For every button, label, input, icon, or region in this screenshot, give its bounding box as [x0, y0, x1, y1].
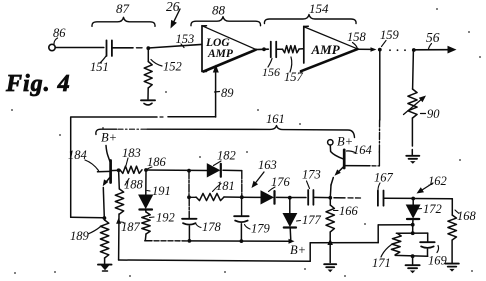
node 156 left — [262, 47, 266, 51]
wire node186 to D191 — [145, 170, 147, 195]
capacitor C156 — [270, 42, 272, 58]
wire lower rail up — [309, 243, 311, 261]
resistor R188 — [118, 170, 121, 189]
arrow 163 — [256, 172, 264, 182]
svg-text:162: 162 — [428, 174, 447, 188]
wire C151 to node — [112, 47, 133, 49]
svg-text:161: 161 — [266, 112, 285, 126]
wire R157 to AMP — [299, 48, 303, 50]
resistor R189 — [103, 218, 105, 220]
svg-text:163: 163 — [258, 158, 277, 172]
wire node to R90 — [412, 50, 415, 89]
node 186 — [144, 168, 148, 172]
op-amp U88 LOG AMP triangle — [201, 26, 203, 72]
svg-text:158: 158 — [347, 30, 367, 44]
svg-text:153: 153 — [176, 32, 195, 46]
B+ rail end arrow — [289, 239, 295, 244]
diode D182 — [207, 164, 219, 177]
svg-text:B+: B+ — [290, 243, 306, 257]
capacitor C167 — [377, 191, 379, 206]
feedback wire from node 159 — [379, 50, 381, 120]
node RC top — [411, 231, 415, 235]
wire rail dashes to C167 — [334, 197, 345, 199]
wire rail to D176 — [242, 196, 261, 198]
capacitor C169 bottom stem — [427, 249, 429, 256]
wire B+ feed vertical — [377, 225, 379, 243]
svg-text:167: 167 — [374, 171, 394, 185]
ground below R168 — [445, 263, 459, 265]
node RC bottom — [411, 254, 415, 258]
wire LOG AMP out — [256, 48, 269, 50]
svg-text:B+: B+ — [101, 131, 117, 145]
wire lower rail horizontal — [119, 259, 238, 262]
arrow 162 — [422, 183, 433, 190]
wire C179 to B+ rail — [240, 224, 242, 241]
ground below R189 arrow style — [98, 264, 112, 266]
resistor R192 — [145, 211, 147, 213]
wire x189 to C178 — [188, 198, 190, 218]
node 172 bottom — [411, 223, 415, 227]
svg-text:90: 90 — [427, 107, 440, 121]
node C179 bottom — [240, 239, 244, 243]
node at R152 — [146, 46, 150, 50]
svg-text:177: 177 — [302, 213, 322, 227]
node R188 top — [117, 168, 121, 172]
node D172 top — [411, 197, 415, 201]
wire D176 to node177 — [277, 196, 291, 198]
node emitter junction — [103, 216, 107, 220]
wire B+ rail — [145, 240, 152, 242]
wire and arrow 56 output — [414, 49, 448, 51]
capacitor C169 top stem — [427, 233, 429, 242]
ground below RC 171/169 — [406, 264, 420, 266]
wire 89 left vertical — [70, 117, 72, 217]
wire node186 to D182 — [146, 169, 207, 172]
wire B+ circle to Q164 — [330, 145, 343, 159]
terminal B+ right circle — [328, 140, 333, 145]
svg-text:152: 152 — [163, 60, 182, 74]
resistor R171 — [391, 233, 401, 255]
svg-text:156: 156 — [262, 65, 280, 79]
capacitor C178 — [182, 218, 197, 220]
wire node to LOG AMP — [148, 44, 201, 48]
node C178 bottom — [188, 239, 192, 243]
svg-text:188: 188 — [124, 178, 144, 192]
node Q164 emitter R166 — [328, 196, 332, 200]
node x189 top — [187, 169, 191, 173]
svg-text:171: 171 — [372, 256, 391, 270]
wire Q184 to R183 — [111, 169, 120, 171]
node 159 — [378, 48, 382, 52]
wire C173 to node166 — [314, 196, 331, 198]
svg-text:186: 186 — [147, 155, 167, 169]
brace 87 — [92, 17, 155, 26]
diode D176 — [261, 191, 273, 204]
scan speckles — [436, 8, 438, 10]
wire R188 to lower rail — [118, 214, 120, 260]
wire input to C151 — [55, 47, 103, 49]
dotted wire 159 to 56 branch — [389, 49, 391, 51]
wire 89 horizontal — [71, 116, 157, 118]
ground below R166 — [324, 263, 336, 265]
svg-text:183: 183 — [122, 146, 141, 160]
wire D172 to node — [412, 219, 414, 224]
svg-text:189: 189 — [70, 229, 90, 243]
wire x242 vertical — [241, 171, 243, 197]
wire node to R168 corner — [413, 198, 452, 200]
svg-text:87: 87 — [116, 1, 130, 16]
svg-text:26: 26 — [166, 0, 180, 14]
feedback arrow into LOG AMP 89 — [215, 72, 217, 117]
svg-text:154: 154 — [309, 1, 329, 16]
resistor R168 — [451, 199, 453, 215]
svg-text:164: 164 — [353, 143, 372, 157]
junction arrow on R166 ground line — [327, 239, 333, 246]
svg-text:179: 179 — [251, 222, 271, 236]
capacitor C179 — [234, 215, 249, 217]
wire node left to B+ feed — [378, 224, 413, 226]
wire D182 to corner — [223, 169, 242, 171]
wire D177 to B+ arrow — [289, 228, 292, 241]
svg-text:176: 176 — [271, 175, 291, 189]
diode D172 — [412, 199, 414, 205]
wire C167 to node172 — [384, 197, 414, 199]
wire R181 right — [224, 196, 242, 198]
wire C156 to R157 — [276, 48, 282, 50]
input terminal 86 — [49, 44, 55, 50]
diode D191 — [139, 195, 153, 208]
svg-text:AMP: AMP — [207, 48, 234, 60]
svg-text:159: 159 — [380, 28, 400, 42]
transistor Q164 bar — [343, 150, 346, 168]
wire B+ to Q184 collector — [106, 146, 110, 163]
svg-text:88: 88 — [212, 3, 226, 18]
brace 161 — [96, 129, 117, 134]
resistor R183 — [120, 166, 142, 173]
resistor R152 — [147, 49, 149, 62]
diode D177 — [289, 198, 291, 213]
svg-text:172: 172 — [423, 202, 442, 216]
Q164 emitter — [337, 166, 344, 173]
capacitor C151 — [106, 40, 108, 56]
svg-text:AMP: AMP — [311, 42, 341, 57]
svg-text:191: 191 — [152, 184, 171, 198]
wire x189 vertical — [188, 171, 190, 197]
ground below R152 — [141, 99, 155, 101]
wire 89 bottom to emitter node — [71, 216, 103, 219]
svg-text:166: 166 — [339, 204, 359, 218]
svg-text:89: 89 — [221, 86, 234, 100]
node R181 right — [240, 195, 244, 199]
node R181 left — [187, 195, 191, 199]
svg-text:192: 192 — [156, 211, 175, 225]
svg-text:173: 173 — [302, 168, 321, 182]
svg-text:169: 169 — [428, 254, 448, 268]
wire lower rail right — [310, 242, 378, 244]
wire R90 to ground — [411, 118, 413, 146]
wire node177 to C173 — [290, 197, 306, 199]
svg-text:151: 151 — [90, 60, 109, 74]
RC combo top rail — [396, 232, 427, 234]
capacitor C169 — [420, 241, 435, 243]
wire AMP output to node 159 — [358, 48, 372, 50]
svg-text:178: 178 — [202, 220, 222, 234]
svg-text:Fig. 4: Fig. 4 — [5, 71, 71, 97]
wire RC to ground — [412, 256, 414, 264]
resistor R166 — [329, 198, 331, 205]
variable resistor R90 — [408, 89, 417, 118]
resistor R157 — [283, 46, 300, 53]
arrow 26 — [174, 9, 180, 21]
svg-text:182: 182 — [217, 149, 236, 163]
ground below R90 — [406, 155, 419, 157]
brace 154 — [264, 15, 356, 24]
wire C178 to B+ rail — [188, 226, 190, 241]
brace 88 — [191, 17, 261, 26]
transistor Q184 bar — [109, 161, 112, 183]
RC combo bottom rail — [395, 254, 428, 257]
node D177 top — [288, 196, 292, 200]
svg-text:184: 184 — [68, 148, 87, 162]
svg-text:B+: B+ — [337, 135, 353, 149]
svg-text:86: 86 — [53, 26, 66, 40]
Q164 base wire to feedback — [344, 165, 370, 167]
node at 56 branch — [412, 48, 416, 52]
wire emitter down — [103, 188, 104, 218]
svg-text:56: 56 — [426, 30, 440, 45]
capacitor C173 — [307, 190, 309, 205]
wire node down to RC combo — [412, 225, 414, 233]
Q184 emitter — [105, 177, 111, 185]
svg-text:168: 168 — [457, 209, 477, 223]
op-amp U154 AMP triangle — [303, 26, 305, 63]
Q184 base stub — [98, 170, 111, 172]
wire x242 to C179 — [241, 198, 243, 216]
resistor R181 — [189, 196, 196, 198]
